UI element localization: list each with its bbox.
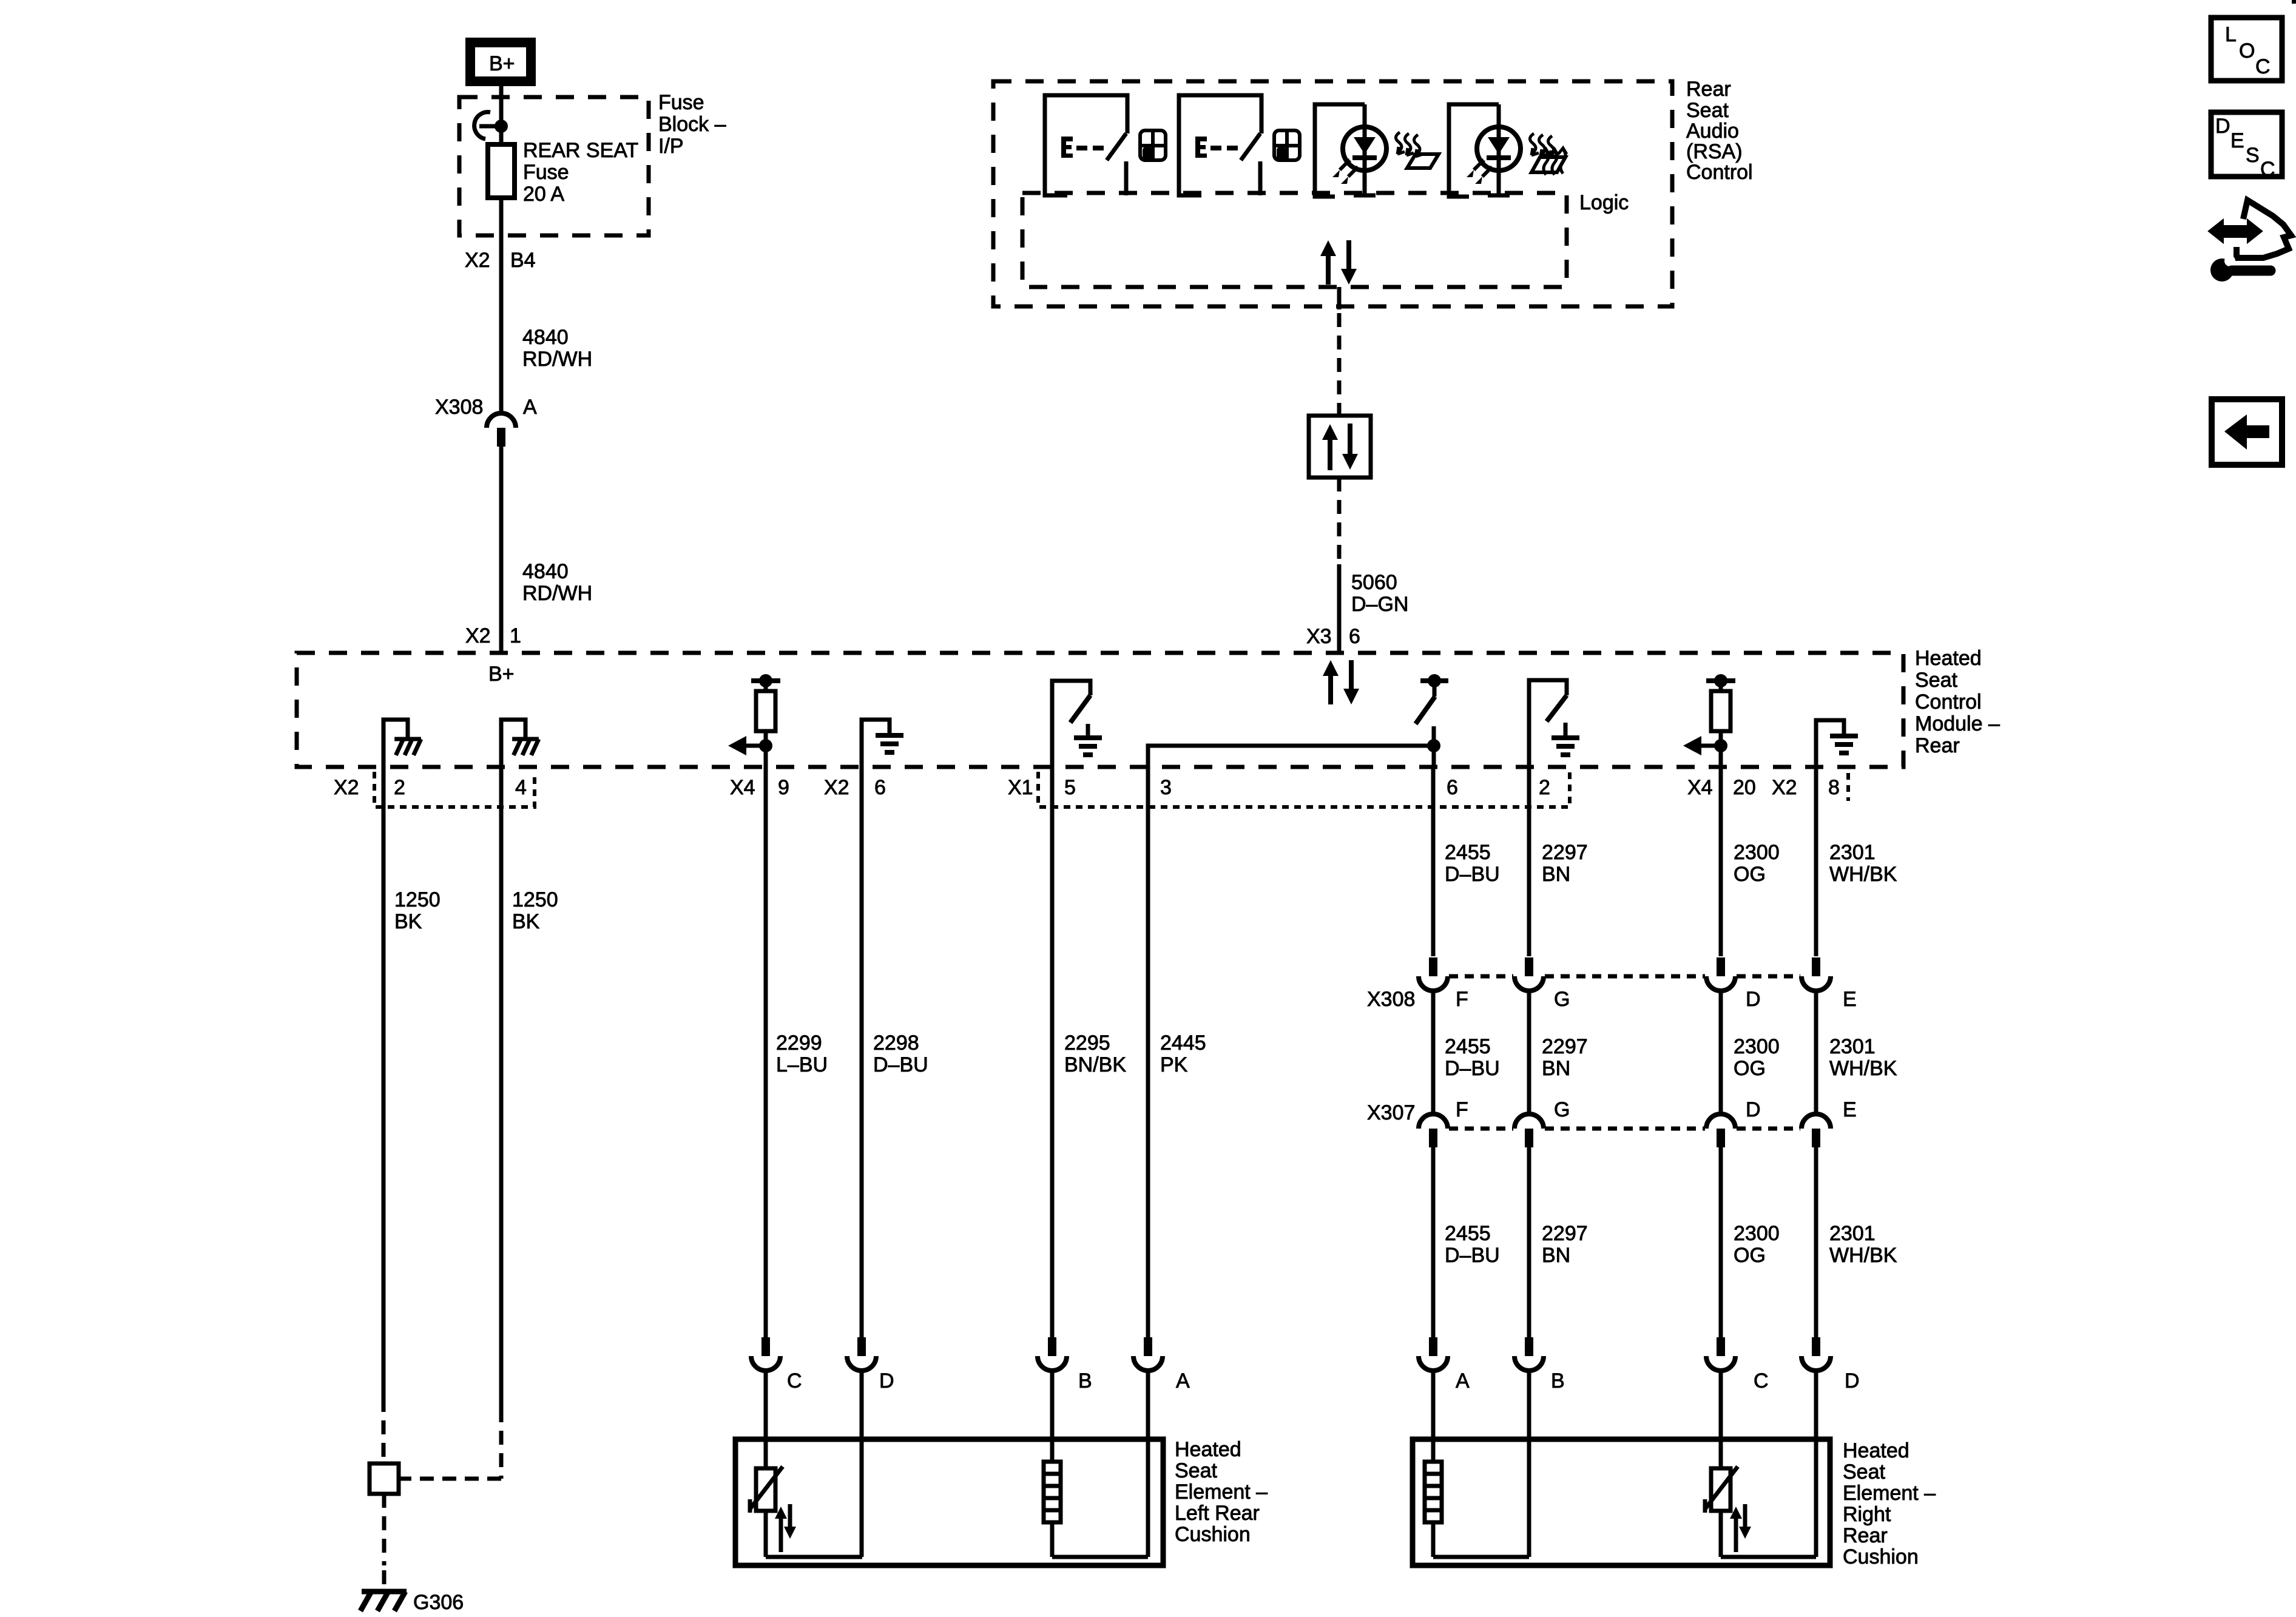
wire dashed pin4 to splice — [399, 1477, 501, 1481]
svg-text:9: 9 — [778, 776, 789, 799]
svg-text:RD/WH: RD/WH — [522, 582, 592, 605]
wire 2298 D-BU — [860, 767, 864, 1337]
label Rear Seat Audio (RSA) Control — [1686, 78, 1753, 184]
wire logic box stub — [1337, 287, 1342, 309]
svg-text:2300: 2300 — [1734, 1222, 1780, 1245]
svg-text:C: C — [2260, 158, 2275, 181]
svg-text:D: D — [2215, 115, 2230, 138]
label 2295 BN/BK — [1064, 1031, 1126, 1076]
svg-text:F: F — [1456, 1098, 1468, 1121]
hand with wrench icon — [2210, 200, 2291, 282]
junction dot fuse feed — [495, 120, 508, 133]
svg-text:B4: B4 — [510, 249, 536, 272]
connector pin A right element — [1419, 1337, 1448, 1371]
connector X308 pin D — [1706, 957, 1735, 991]
svg-text:C: C — [2255, 55, 2271, 78]
svg-text:(RSA): (RSA) — [1686, 140, 1743, 163]
connector pin D left element — [847, 1337, 876, 1371]
svg-text:X3: X3 — [1306, 625, 1332, 648]
serial data symbol box — [1309, 416, 1371, 478]
svg-text:OG: OG — [1734, 1244, 1766, 1267]
svg-text:BN: BN — [1542, 1244, 1570, 1267]
label 2299 L-BU — [776, 1031, 828, 1076]
pin letters right element — [1456, 1369, 1860, 1393]
svg-text:5: 5 — [1064, 776, 1076, 799]
wire 4840 RD/WH lower — [499, 447, 504, 653]
chassis ground symbol pin 4 — [512, 739, 539, 755]
RSA control outer dashed box — [993, 81, 1672, 306]
wire row2 — [1431, 991, 1436, 1114]
wire A into right element — [1431, 1371, 1436, 1462]
thermistor left element — [750, 1467, 796, 1552]
label Heated Seat Element - Left Rear Cushion — [1175, 1438, 1268, 1546]
svg-text:2297: 2297 — [1542, 1222, 1588, 1245]
thermistor right element — [1705, 1467, 1751, 1552]
wire B into element — [1050, 1371, 1055, 1462]
svg-text:C: C — [787, 1369, 802, 1393]
svg-text:1: 1 — [510, 624, 521, 647]
svg-text:REAR SEAT: REAR SEAT — [523, 139, 638, 162]
LOC icon box — [2211, 18, 2282, 81]
wire row3 — [1719, 1147, 1723, 1337]
svg-text:BN: BN — [1542, 863, 1570, 886]
connector X307 pin E — [1801, 1114, 1831, 1147]
svg-text:2301: 2301 — [1829, 841, 1876, 864]
svg-text:2455: 2455 — [1445, 841, 1491, 864]
svg-text:B+: B+ — [489, 52, 515, 75]
connector X308 pin G — [1514, 957, 1544, 991]
svg-text:Cushion: Cushion — [1843, 1545, 1919, 1568]
svg-text:A: A — [1456, 1369, 1470, 1393]
svg-text:4840: 4840 — [522, 560, 569, 583]
wire pin 3 internal — [1148, 746, 1434, 767]
svg-text:L–BU: L–BU — [776, 1053, 828, 1076]
svg-text:2: 2 — [394, 776, 405, 799]
svg-text:A: A — [523, 396, 537, 419]
heated seat element right box — [1413, 1439, 1830, 1565]
wire 2297 BN row1 — [1527, 767, 1531, 956]
connector X307 dashed ties — [1449, 1127, 1800, 1131]
switch to ground pin X1-5 — [1052, 681, 1090, 767]
wire row3 — [1527, 1147, 1531, 1337]
wire 2455 D-BU row1 — [1431, 767, 1436, 956]
svg-text:Heated: Heated — [1175, 1438, 1241, 1461]
wire 2300 OG row1 — [1719, 767, 1723, 956]
svg-text:2: 2 — [1539, 776, 1550, 799]
svg-text:G306: G306 — [413, 1591, 464, 1614]
labels right columns row3 — [1445, 1222, 1897, 1267]
RSA window grid icon 1 — [1140, 130, 1166, 160]
DESC icon box — [2211, 112, 2282, 181]
wire 2299 L-BU — [764, 767, 768, 1337]
svg-text:D: D — [1845, 1369, 1860, 1393]
pin label X2 B4 — [465, 249, 536, 272]
connector X308 dashed ties — [1449, 974, 1800, 979]
wire to fuse — [499, 126, 504, 144]
label Heated Seat Element - Right Rear Cushion — [1843, 1439, 1936, 1568]
svg-text:X4: X4 — [730, 776, 755, 799]
svg-text:E: E — [1843, 988, 1857, 1011]
svg-text:D–BU: D–BU — [1445, 1057, 1500, 1080]
svg-text:Seat: Seat — [1686, 99, 1729, 122]
wire dashed to G306 b — [382, 1570, 387, 1590]
svg-text:L: L — [2225, 23, 2237, 46]
wire thermistor to D right — [1721, 1555, 1816, 1559]
label Fuse Block - I/P — [658, 91, 726, 158]
svg-text:OG: OG — [1734, 863, 1766, 886]
wire heater to B right — [1433, 1555, 1529, 1559]
svg-text:D: D — [879, 1369, 894, 1393]
svg-text:Cushion: Cushion — [1175, 1523, 1251, 1546]
wire B+ to fuse — [499, 86, 504, 126]
svg-text:G: G — [1554, 1098, 1570, 1121]
pin labels module bottom — [334, 776, 1840, 799]
svg-text:4: 4 — [515, 776, 527, 799]
splice box ground — [370, 1463, 399, 1494]
wire heater leg right — [1431, 1522, 1436, 1557]
wire row3 — [1431, 1147, 1436, 1337]
svg-text:Rear: Rear — [1843, 1524, 1888, 1547]
svg-text:Right: Right — [1843, 1503, 1891, 1526]
svg-text:20: 20 — [1733, 776, 1756, 799]
ground G306 symbol — [360, 1592, 407, 1611]
svg-text:Block –: Block – — [658, 113, 726, 136]
pin label X2 1 — [465, 624, 521, 647]
connector X308 pin A inline — [487, 413, 516, 447]
svg-text:BN: BN — [1542, 1057, 1570, 1080]
svg-text:Fuse: Fuse — [523, 161, 569, 184]
svg-text:2445: 2445 — [1160, 1031, 1206, 1055]
wire 1250 BK pin 2 — [382, 767, 386, 1398]
wire C into right element — [1719, 1371, 1723, 1468]
connector outline X2 right fine dash — [1846, 773, 1850, 801]
connector outline X2 left fine dashed box — [374, 772, 535, 807]
label connector X308 A — [435, 396, 537, 419]
svg-text:Seat: Seat — [1915, 669, 1957, 692]
pin letters left element — [787, 1369, 1190, 1393]
svg-text:X2: X2 — [1772, 776, 1797, 799]
connector X307 pin D — [1706, 1114, 1735, 1147]
svg-text:Seat: Seat — [1843, 1460, 1885, 1484]
connector X308 pin F — [1419, 957, 1448, 991]
svg-text:PK: PK — [1160, 1053, 1188, 1076]
svg-text:20 A: 20 A — [523, 183, 564, 206]
back arrow icon box — [2212, 399, 2282, 465]
svg-text:6: 6 — [1349, 625, 1360, 648]
labels X308 row — [1367, 988, 1857, 1011]
fusible link curl — [474, 112, 501, 139]
heater element right — [1425, 1462, 1442, 1522]
wire thermistor to D — [766, 1555, 862, 1559]
svg-text:2295: 2295 — [1064, 1031, 1110, 1055]
ground hook pin X2-8 — [1816, 720, 1844, 767]
wire C into element — [764, 1371, 768, 1468]
serial data arrows in logic box — [1320, 240, 1357, 285]
svg-text:X2: X2 — [465, 249, 490, 272]
connector pin A left element — [1133, 1337, 1163, 1371]
svg-text:X1: X1 — [1008, 776, 1033, 799]
svg-text:RD/WH: RD/WH — [522, 348, 592, 371]
wire dashed to splice — [382, 1398, 386, 1463]
svg-text:2301: 2301 — [1829, 1035, 1876, 1058]
ground hook pin X2-4 — [501, 720, 525, 767]
wire 2301 WH/BK row1 — [1814, 767, 1818, 956]
label REAR SEAT Fuse 20 A — [523, 139, 638, 206]
label 4840 RD/WH — [522, 326, 592, 371]
wire 2295 BN/BK — [1050, 767, 1055, 1337]
svg-text:2300: 2300 — [1734, 1035, 1780, 1058]
RSA LED indicator 2 — [1449, 104, 1521, 197]
svg-text:X307: X307 — [1367, 1101, 1415, 1124]
heated seat control module dashed box — [297, 653, 1903, 767]
switch to ground pin 2 — [1529, 680, 1567, 767]
svg-text:6: 6 — [874, 776, 886, 799]
svg-text:S: S — [2246, 144, 2260, 167]
label 2445 PK — [1160, 1031, 1206, 1076]
svg-text:BN/BK: BN/BK — [1064, 1053, 1126, 1076]
labels right columns row1 — [1445, 841, 1897, 886]
svg-text:Control: Control — [1686, 161, 1753, 184]
svg-text:B: B — [1078, 1369, 1092, 1393]
svg-text:Heated: Heated — [1915, 647, 1982, 670]
sensor resistor with output arrow pin X4-20 — [1683, 674, 1735, 767]
svg-text:OG: OG — [1734, 1057, 1766, 1080]
switch pin 6 — [1416, 674, 1448, 767]
svg-text:Control: Control — [1915, 690, 1982, 714]
page corner mark — [2292, 0, 2296, 4]
labels X307 row — [1367, 1098, 1857, 1124]
svg-text:X4: X4 — [1687, 776, 1713, 799]
svg-text:B+: B+ — [488, 663, 515, 686]
wire thermistor leg — [764, 1511, 768, 1557]
svg-text:1250: 1250 — [512, 888, 558, 911]
svg-text:B: B — [1551, 1369, 1565, 1393]
wire 5060 D-GN — [1337, 564, 1342, 653]
svg-text:X308: X308 — [435, 396, 483, 419]
svg-text:WH/BK: WH/BK — [1829, 863, 1897, 886]
svg-text:D–BU: D–BU — [1445, 863, 1500, 886]
svg-text:Logic: Logic — [1579, 191, 1629, 214]
label 1250 BK second — [512, 888, 558, 933]
connector X307 pin G — [1514, 1114, 1544, 1147]
svg-text:X2: X2 — [824, 776, 849, 799]
svg-text:E: E — [2230, 129, 2244, 152]
svg-text:G: G — [1554, 988, 1570, 1011]
connector pin C right element — [1706, 1337, 1735, 1371]
sensor resistor with output arrow pin X4-9 — [728, 674, 780, 767]
svg-text:I/P: I/P — [658, 135, 684, 158]
svg-text:3: 3 — [1160, 776, 1172, 799]
svg-text:Fuse: Fuse — [658, 91, 704, 114]
wire row2 — [1814, 991, 1818, 1114]
label 5060 D-GN — [1351, 571, 1408, 616]
wire dashed pin4 down — [499, 1408, 504, 1479]
svg-text:2301: 2301 — [1829, 1222, 1876, 1245]
svg-text:8: 8 — [1828, 776, 1840, 799]
svg-text:BK: BK — [512, 910, 540, 933]
connector pin C left element — [751, 1337, 780, 1371]
svg-text:1250: 1250 — [394, 888, 441, 911]
svg-text:BK: BK — [394, 910, 422, 933]
ground hook pin X2-6 — [862, 720, 890, 767]
power symbol B+ box — [470, 42, 531, 81]
wire thermistor leg right — [1719, 1511, 1723, 1557]
svg-text:A: A — [1176, 1369, 1190, 1393]
RSA window grid icon 2 — [1274, 130, 1300, 160]
chassis ground symbol pin 2 — [394, 739, 421, 755]
earth ground symbol pin 6 — [876, 735, 903, 752]
pin label X3 6 — [1306, 625, 1360, 648]
svg-text:D: D — [1746, 1098, 1761, 1121]
wire dashed to G306 a — [382, 1494, 387, 1565]
wire A into element — [1146, 1371, 1150, 1557]
connector X307 pin F — [1419, 1114, 1448, 1147]
connector outline X1 fine dashed box — [1038, 772, 1570, 807]
svg-text:Rear: Rear — [1686, 78, 1731, 101]
label 4840 RD/WH second — [522, 560, 592, 605]
RSA switch icon 2 — [1179, 95, 1261, 195]
label 1250 BK — [394, 888, 441, 933]
wire 4840 RD/WH upper — [499, 198, 504, 413]
earth ground symbol pin 5 switch — [1074, 738, 1102, 755]
svg-text:2298: 2298 — [873, 1031, 919, 1055]
connector pin D right element — [1801, 1337, 1831, 1371]
connector X308 pin E — [1801, 957, 1831, 991]
ground hook pin X2-2 — [383, 720, 408, 767]
svg-text:4840: 4840 — [522, 326, 569, 349]
svg-text:Left Rear: Left Rear — [1175, 1502, 1260, 1525]
svg-text:Heated: Heated — [1843, 1439, 1909, 1462]
RSA logic dashed box — [1022, 193, 1567, 287]
svg-text:X308: X308 — [1367, 988, 1415, 1011]
RSA heated seat icon — [1530, 133, 1567, 175]
svg-text:D–BU: D–BU — [873, 1053, 928, 1076]
svg-text:Element –: Element – — [1175, 1480, 1268, 1504]
svg-text:2299: 2299 — [776, 1031, 822, 1055]
svg-text:Rear: Rear — [1915, 734, 1960, 757]
svg-text:6: 6 — [1447, 776, 1458, 799]
heater element left — [1044, 1462, 1061, 1522]
RSA switch icon 1 — [1045, 95, 1127, 195]
svg-text:O: O — [2239, 39, 2255, 62]
wire B into right element — [1527, 1371, 1531, 1557]
svg-text:2297: 2297 — [1542, 841, 1588, 864]
svg-text:2455: 2455 — [1445, 1222, 1491, 1245]
svg-text:C: C — [1754, 1369, 1769, 1393]
label 2298 D-BU — [873, 1031, 928, 1076]
earth ground symbol pin 8 — [1830, 736, 1858, 753]
svg-text:E: E — [1843, 1098, 1857, 1121]
RSA heated window icon — [1396, 132, 1439, 168]
svg-text:Seat: Seat — [1175, 1459, 1217, 1482]
svg-text:2300: 2300 — [1734, 841, 1780, 864]
heated seat element left box — [735, 1439, 1163, 1565]
wire heater to A — [1052, 1555, 1148, 1559]
svg-text:D: D — [1746, 988, 1761, 1011]
wire serial data upper dashed — [1337, 313, 1342, 416]
fuse block dashed box — [459, 97, 649, 235]
label Heated Seat Control Module - Rear — [1915, 647, 2000, 757]
svg-text:X2: X2 — [465, 624, 491, 647]
wire heater leg — [1050, 1522, 1055, 1557]
earth ground symbol pin 2 switch — [1551, 738, 1579, 755]
svg-text:Element –: Element – — [1843, 1482, 1936, 1505]
svg-text:X2: X2 — [334, 776, 359, 799]
svg-text:5060: 5060 — [1351, 571, 1397, 594]
wire 1250 BK pin 4 — [499, 767, 504, 1408]
svg-text:WH/BK: WH/BK — [1829, 1244, 1897, 1267]
serial data arrows in module — [1323, 660, 1359, 704]
wire D into element — [860, 1371, 864, 1557]
wire serial data lower dashed — [1337, 478, 1342, 564]
svg-text:2455: 2455 — [1445, 1035, 1491, 1058]
wire row3 — [1814, 1147, 1818, 1337]
svg-text:2297: 2297 — [1542, 1035, 1588, 1058]
svg-text:Audio: Audio — [1686, 120, 1739, 143]
svg-text:Module –: Module – — [1915, 712, 2000, 735]
wire row2 — [1719, 991, 1723, 1114]
svg-text:WH/BK: WH/BK — [1829, 1057, 1897, 1080]
fuse REAR SEAT 20 A — [488, 144, 515, 198]
wire D into right element — [1814, 1371, 1818, 1557]
svg-text:D–GN: D–GN — [1351, 593, 1408, 616]
connector pin B left element — [1038, 1337, 1067, 1371]
svg-text:F: F — [1456, 988, 1468, 1011]
RSA LED indicator 1 — [1315, 104, 1386, 197]
wire row2 — [1527, 991, 1531, 1114]
connector pin B right element — [1514, 1337, 1544, 1371]
wire 2445 PK — [1146, 767, 1150, 1337]
svg-text:D–BU: D–BU — [1445, 1244, 1500, 1267]
labels right columns row2 — [1445, 1035, 1897, 1080]
